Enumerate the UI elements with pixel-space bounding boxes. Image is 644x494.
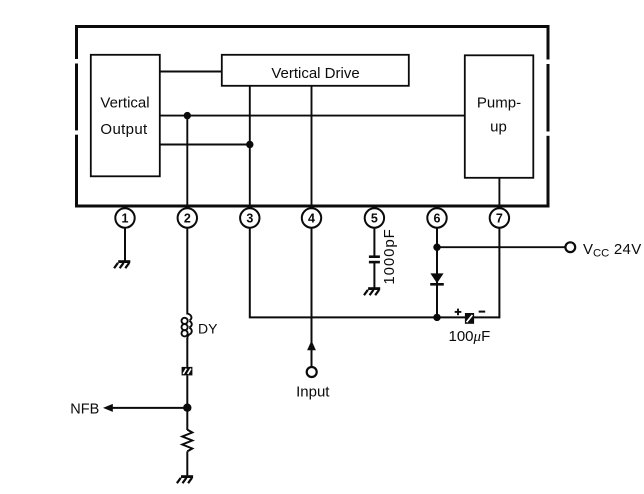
svg-text:5: 5 [371,212,378,226]
wire pin 3 down [250,228,500,318]
pin 2 [178,208,197,227]
svg-text:Vertical Drive: Vertical Drive [271,65,359,82]
wire pin 7 down [498,228,500,319]
wire pin 2 to inductor DY [186,228,188,315]
pin 4 [302,208,321,227]
label - polarity [479,311,486,313]
pin 6 [427,208,446,227]
wire pin 5 to capacitor [373,228,375,256]
ground (below resistor) [177,477,193,484]
inductor DY [182,314,192,339]
svg-text:Vertical: Vertical [100,95,149,112]
svg-text:4: 4 [308,212,315,226]
pin 5 [365,208,384,227]
svg-text:3: 3 [246,212,253,226]
wire inductor to hatched element [186,338,188,367]
svg-text:2: 2 [184,212,191,226]
wire internal pin 4 (from Vertical Drive) [311,86,313,209]
svg-text:Input: Input [296,384,330,401]
svg-text:1000pF: 1000pF [381,228,398,284]
svg-text:1: 1 [122,212,129,226]
wire Vertical Output to Pump-up (bus line) [160,115,465,117]
terminal Input [307,367,317,377]
ground (pin 1) [114,262,130,269]
svg-text:NFB: NFB [70,402,99,418]
wire hatched element to node [186,375,188,430]
wire internal pin 3 (from Vertical Drive) [249,86,251,209]
arrowhead input (pointing up) [307,341,316,351]
label + polarity [455,309,462,316]
wire Vertical Output to Vertical Drive [160,71,222,73]
svg-text:up: up [490,119,507,136]
svg-text:DY: DY [198,321,218,337]
diode D1 [430,273,444,284]
svg-text:Output: Output [100,121,148,138]
wire pin 1 to ground [124,228,126,261]
junction dot at pin2 line / bus line [184,112,191,119]
svg-text:6: 6 [434,212,441,226]
block Vertical Drive [222,55,409,86]
terminal Vcc [565,242,575,252]
pin 1 [115,208,134,227]
junction dot at pin3 line [246,141,253,148]
hatched element (fusible resistor) on pin 2 line [182,367,193,376]
arrowhead NFB [103,404,113,412]
IC package outline U1 [77,27,549,207]
wire Vcc [437,246,565,248]
capacitor C2 100uF (polarized, hatched body) [465,313,474,324]
wire pin 4 down to input [311,228,313,367]
wire resistor to ground [186,451,188,476]
svg-text:VCC 24V: VCC 24V [583,241,642,260]
wire internal pin 7 (from Pump-up) [498,178,500,209]
pin 3 [240,208,259,227]
junction dot pin6 line / bottom bus [433,314,440,321]
svg-text:Pump-: Pump- [477,95,521,112]
pin 7 [490,208,509,227]
wire Vertical Output to pin 3 line [160,144,250,146]
svg-text:7: 7 [496,212,503,226]
wire NFB arrow [109,407,187,409]
block Vertical Output [91,55,160,177]
wire pin 6 down [436,228,438,318]
resistor (pin 2 network to ground) [182,430,192,452]
junction dot pin6 / Vcc [433,244,440,251]
ground (below 1000pF) [364,289,380,296]
wire capacitor to ground [373,263,375,288]
capacitor C 1000pF [369,257,380,262]
svg-text:100μF: 100μF [449,328,491,345]
wire internal pin 2 [186,116,188,209]
block Pump-up [465,55,534,178]
junction node (NFB tap) [183,404,191,412]
